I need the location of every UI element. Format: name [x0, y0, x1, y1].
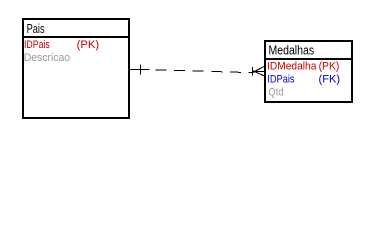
svg-text:Medalhas: Medalhas	[269, 43, 315, 58]
cardinality one tick (Pais side)	[140, 65, 142, 75]
svg-text:Descricao: Descricao	[24, 52, 70, 64]
attribute IDMedalha (PK) of Medalhas	[267, 61, 339, 73]
svg-text:(PK): (PK)	[77, 39, 100, 51]
svg-text:(FK): (FK)	[319, 74, 341, 86]
svg-text:IDPais: IDPais	[24, 39, 50, 51]
wire solid segment at Pais side	[130, 69, 149, 71]
svg-text:Pais: Pais	[27, 21, 45, 36]
entity Pais box	[23, 19, 129, 118]
cardinality tick (Medalhas side)	[252, 67, 254, 76]
entity Medalhas title separator	[264, 58, 353, 60]
junction dot at crow's foot apex	[253, 70, 255, 72]
wire dashed segment	[156, 70, 254, 73]
entity Pais title separator	[22, 36, 130, 38]
svg-text:IDMedalha: IDMedalha	[267, 61, 317, 73]
svg-text:IDPais: IDPais	[267, 74, 295, 86]
crow's foot upper prong	[255, 67, 265, 72]
crow's foot middle prong	[255, 70, 265, 72]
svg-text:Qtd: Qtd	[269, 87, 284, 99]
attribute IDPais (PK) of Pais	[24, 39, 99, 51]
attribute IDPais (FK) of Medalhas	[267, 74, 340, 86]
crow's foot lower prong	[255, 72, 265, 76]
entity Medalhas box	[265, 41, 352, 102]
svg-text:(PK): (PK)	[319, 61, 340, 73]
